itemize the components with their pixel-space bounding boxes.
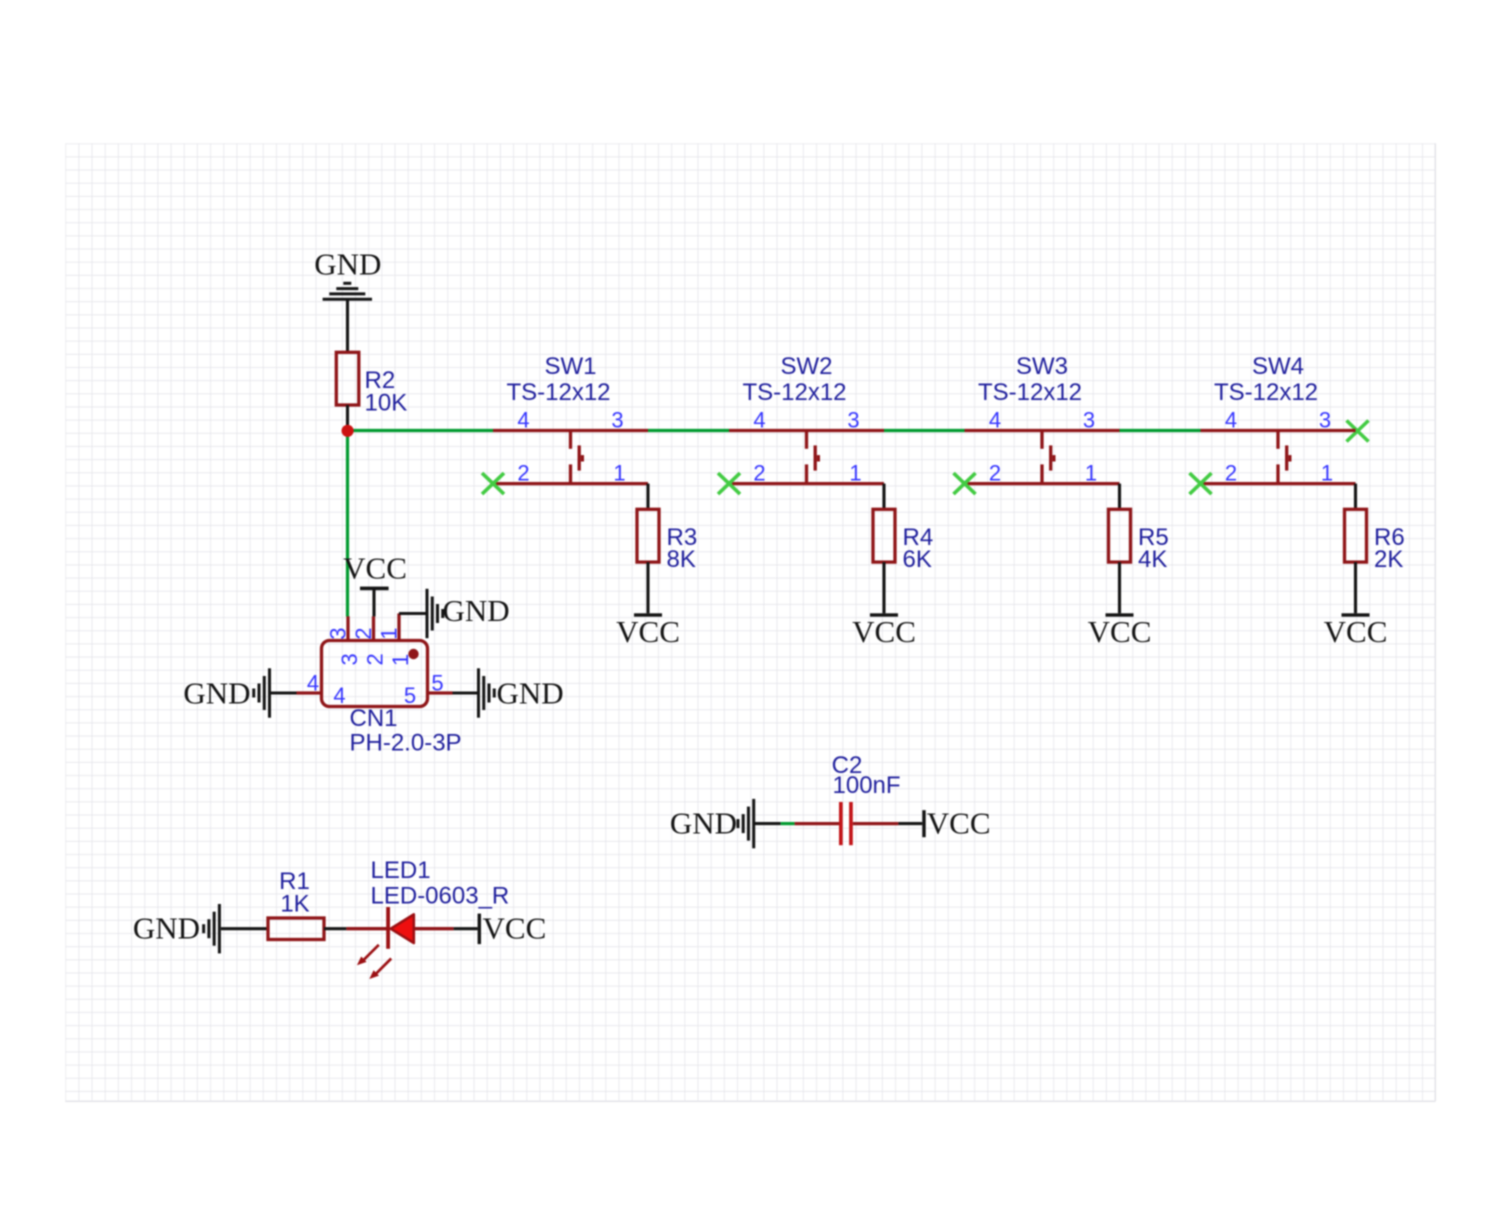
svg-text:1: 1: [377, 627, 402, 639]
svg-text:TS-12x12: TS-12x12: [506, 379, 610, 406]
svg-text:PH-2.0-3P: PH-2.0-3P: [350, 730, 462, 757]
svg-text:4: 4: [307, 671, 319, 696]
svg-text:GND: GND: [314, 247, 381, 282]
svg-text:CN1: CN1: [350, 705, 398, 732]
svg-text:1K: 1K: [280, 891, 309, 918]
svg-text:5: 5: [404, 683, 416, 708]
svg-text:TS-12x12: TS-12x12: [742, 379, 846, 406]
svg-text:2: 2: [351, 627, 376, 639]
svg-text:LED1: LED1: [371, 857, 431, 884]
svg-text:100nF: 100nF: [833, 772, 901, 799]
svg-text:GND: GND: [670, 806, 737, 841]
svg-text:LED-0603_R: LED-0603_R: [371, 883, 510, 910]
svg-text:SW2: SW2: [780, 353, 832, 380]
svg-text:3: 3: [326, 627, 351, 639]
svg-text:10K: 10K: [365, 390, 408, 417]
svg-text:TS-12x12: TS-12x12: [978, 379, 1082, 406]
svg-text:2K: 2K: [1374, 546, 1403, 573]
svg-text:SW4: SW4: [1252, 353, 1304, 380]
svg-text:TS-12x12: TS-12x12: [1214, 379, 1318, 406]
svg-text:SW1: SW1: [544, 353, 596, 380]
svg-text:SW3: SW3: [1016, 353, 1068, 380]
svg-text:GND: GND: [443, 593, 510, 628]
svg-text:GND: GND: [183, 676, 250, 711]
svg-text:5: 5: [431, 671, 443, 696]
svg-text:VCC: VCC: [927, 806, 991, 841]
svg-text:2: 2: [363, 653, 388, 665]
svg-text:4K: 4K: [1138, 546, 1167, 573]
svg-text:4: 4: [333, 683, 345, 708]
svg-text:3: 3: [337, 653, 362, 665]
svg-text:VCC: VCC: [483, 911, 547, 946]
svg-text:8K: 8K: [667, 546, 696, 573]
svg-text:6K: 6K: [903, 546, 932, 573]
svg-text:GND: GND: [133, 911, 200, 946]
svg-text:GND: GND: [497, 676, 564, 711]
svg-text:VCC: VCC: [343, 551, 407, 586]
